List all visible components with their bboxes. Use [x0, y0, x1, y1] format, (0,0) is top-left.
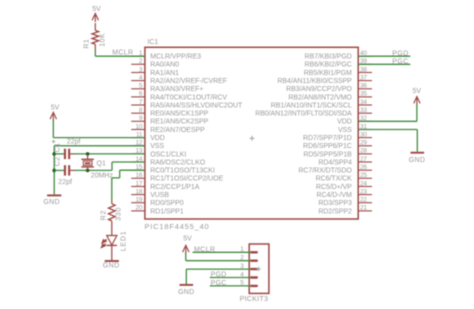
svg-text:PIC18F4455_40: PIC18F4455_40 — [145, 222, 210, 231]
svg-text:R2: R2 — [100, 210, 107, 221]
svg-text:16: 16 — [136, 172, 143, 179]
svg-text:GND: GND — [103, 262, 120, 269]
svg-text:RA6/OSC2/CLKO: RA6/OSC2/CLKO — [150, 159, 206, 166]
svg-text:R1: R1 — [84, 39, 91, 49]
svg-text:RD1/SPP1: RD1/SPP1 — [150, 208, 184, 215]
svg-text:GND: GND — [43, 199, 59, 206]
svg-text:26: 26 — [360, 164, 367, 171]
svg-text:23: 23 — [360, 188, 367, 195]
svg-text:RB0/AN12/INT0/FLT0/SDI/SDA: RB0/AN12/INT0/FLT0/SDI/SDA — [255, 111, 352, 118]
svg-text:RA4/T0CKI/C1OUT/RCV: RA4/T0CKI/C1OUT/RCV — [150, 94, 227, 101]
svg-text:24: 24 — [360, 180, 367, 187]
svg-text:RC0/T1OSO/T13CKI: RC0/T1OSO/T13CKI — [150, 168, 215, 175]
svg-text:330: 330 — [115, 207, 122, 221]
svg-text:LED1: LED1 — [120, 231, 127, 252]
svg-text:RD0/SPP0: RD0/SPP0 — [150, 200, 184, 207]
svg-text:22pf: 22pf — [58, 179, 72, 186]
svg-text:PGD: PGD — [392, 50, 408, 57]
svg-text:5V: 5V — [413, 88, 422, 95]
svg-text:20: 20 — [136, 205, 143, 212]
svg-text:PICKIT3: PICKIT3 — [240, 294, 269, 303]
svg-text:GND: GND — [178, 289, 194, 296]
svg-text:22: 22 — [360, 197, 367, 204]
svg-text:RC6/TX/CK: RC6/TX/CK — [316, 176, 352, 183]
svg-text:VUSB: VUSB — [150, 192, 169, 199]
svg-text:PGC: PGC — [392, 58, 408, 65]
svg-text:RC7/RX/DT/SDO: RC7/RX/DT/SDO — [298, 168, 352, 175]
svg-text:36: 36 — [360, 83, 367, 90]
svg-text:RA2/AN2/VREF-/CVREF: RA2/AN2/VREF-/CVREF — [150, 78, 227, 85]
svg-text:10K: 10K — [100, 33, 107, 47]
svg-text:35: 35 — [360, 91, 367, 98]
svg-text:VDD: VDD — [150, 135, 165, 142]
svg-text:RB3/AN9/CCP2/VPO: RB3/AN9/CCP2/VPO — [286, 86, 352, 93]
svg-text:19: 19 — [136, 197, 143, 204]
svg-text:MCLR: MCLR — [194, 246, 215, 253]
svg-text:C2: C2 — [55, 157, 62, 167]
svg-text:RD6/SPP6/P1C: RD6/SPP6/P1C — [303, 143, 352, 150]
svg-text:PGC: PGC — [211, 280, 227, 287]
svg-text:RC4/D-/VM: RC4/D-/VM — [316, 192, 352, 199]
svg-text:RD3/SPP3: RD3/SPP3 — [318, 200, 352, 207]
svg-text:MCLR/VPP/RE3: MCLR/VPP/RE3 — [150, 54, 201, 61]
svg-text:22pf: 22pf — [67, 138, 81, 145]
svg-text:MCLR: MCLR — [112, 50, 133, 57]
svg-text:RD4/SPP4: RD4/SPP4 — [318, 159, 352, 166]
svg-text:RA3/AN3/VREF+: RA3/AN3/VREF+ — [150, 86, 203, 93]
svg-text:RB2/AN8/INT2/VMO: RB2/AN8/INT2/VMO — [288, 94, 352, 101]
svg-text:RE0/AN5/CK1SPP: RE0/AN5/CK1SPP — [150, 111, 208, 118]
svg-text:21: 21 — [360, 205, 367, 212]
svg-text:RB1/AN10/INT1/SCK/SCL: RB1/AN10/INT1/SCK/SCL — [271, 102, 352, 109]
svg-text:RC2/CCP1/P1A: RC2/CCP1/P1A — [150, 184, 200, 191]
svg-text:VSS: VSS — [150, 143, 164, 150]
svg-text:RA0/AN0: RA0/AN0 — [150, 62, 179, 69]
svg-text:RB6/KBI2/PGC: RB6/KBI2/PGC — [305, 62, 352, 69]
svg-text:RD2/SPP2: RD2/SPP2 — [318, 208, 352, 215]
svg-text:RC5/D+/VP: RC5/D+/VP — [316, 184, 352, 191]
svg-text:RA5/AN4/SS/HLVDIN/C2OUT: RA5/AN4/SS/HLVDIN/C2OUT — [150, 102, 243, 109]
svg-text:20MHz: 20MHz — [91, 172, 114, 179]
svg-text:37: 37 — [360, 74, 367, 81]
svg-text:VDD: VDD — [337, 119, 352, 126]
svg-text:30: 30 — [360, 131, 367, 138]
svg-text:RB7/KBI3/PGD: RB7/KBI3/PGD — [305, 54, 352, 61]
svg-text:RA1/AN1: RA1/AN1 — [150, 70, 179, 77]
svg-text:5V: 5V — [92, 6, 101, 13]
svg-text:PGD: PGD — [211, 272, 227, 279]
svg-text:RB5/KBI1/PGM: RB5/KBI1/PGM — [304, 70, 352, 77]
svg-text:33: 33 — [360, 107, 367, 114]
svg-text:IC1: IC1 — [147, 39, 158, 46]
svg-text:5V: 5V — [51, 105, 60, 112]
svg-text:RD7/SPP7/P1D: RD7/SPP7/P1D — [303, 135, 352, 142]
svg-text:RD5/SPP5/P1B: RD5/SPP5/P1B — [303, 151, 352, 158]
svg-text:GND: GND — [409, 157, 425, 164]
svg-text:C1: C1 — [55, 143, 62, 153]
svg-text:38: 38 — [360, 66, 367, 73]
svg-text:OSC1/CLKI: OSC1/CLKI — [150, 151, 186, 158]
svg-text:34: 34 — [360, 99, 367, 106]
svg-text:VSS: VSS — [338, 127, 352, 134]
svg-text:27: 27 — [360, 156, 367, 163]
svg-text:RC1/T1OSI/CCP2/UOE: RC1/T1OSI/CCP2/UOE — [150, 176, 223, 183]
svg-text:25: 25 — [360, 172, 367, 179]
svg-text:28: 28 — [360, 148, 367, 155]
svg-text:18: 18 — [136, 188, 143, 195]
svg-text:29: 29 — [360, 140, 367, 147]
svg-text:5V: 5V — [183, 236, 192, 243]
svg-text:RE2/AN7/OESPP: RE2/AN7/OESPP — [150, 127, 205, 134]
svg-text:17: 17 — [136, 180, 143, 187]
svg-text:RE1/AN6/CK2SPP: RE1/AN6/CK2SPP — [150, 119, 208, 126]
svg-text:Q1: Q1 — [97, 161, 106, 168]
svg-text:RB4/AN11/KBI0/CSSPP: RB4/AN11/KBI0/CSSPP — [277, 78, 352, 85]
svg-text:10: 10 — [136, 123, 143, 130]
